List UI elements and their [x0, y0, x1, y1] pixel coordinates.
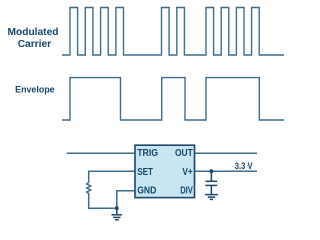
svg-text:GND: GND: [137, 185, 156, 196]
svg-text:OUT: OUT: [175, 148, 193, 159]
svg-text:SET: SET: [137, 167, 153, 178]
svg-text:TRIG: TRIG: [137, 148, 158, 159]
svg-text:V+: V+: [182, 167, 192, 178]
svg-text:Modulated: Modulated: [8, 27, 59, 38]
svg-text:3.3 V: 3.3 V: [235, 161, 253, 172]
svg-text:Carrier: Carrier: [18, 39, 51, 50]
svg-text:Envelope: Envelope: [15, 85, 55, 95]
svg-text:DIV: DIV: [180, 185, 193, 196]
